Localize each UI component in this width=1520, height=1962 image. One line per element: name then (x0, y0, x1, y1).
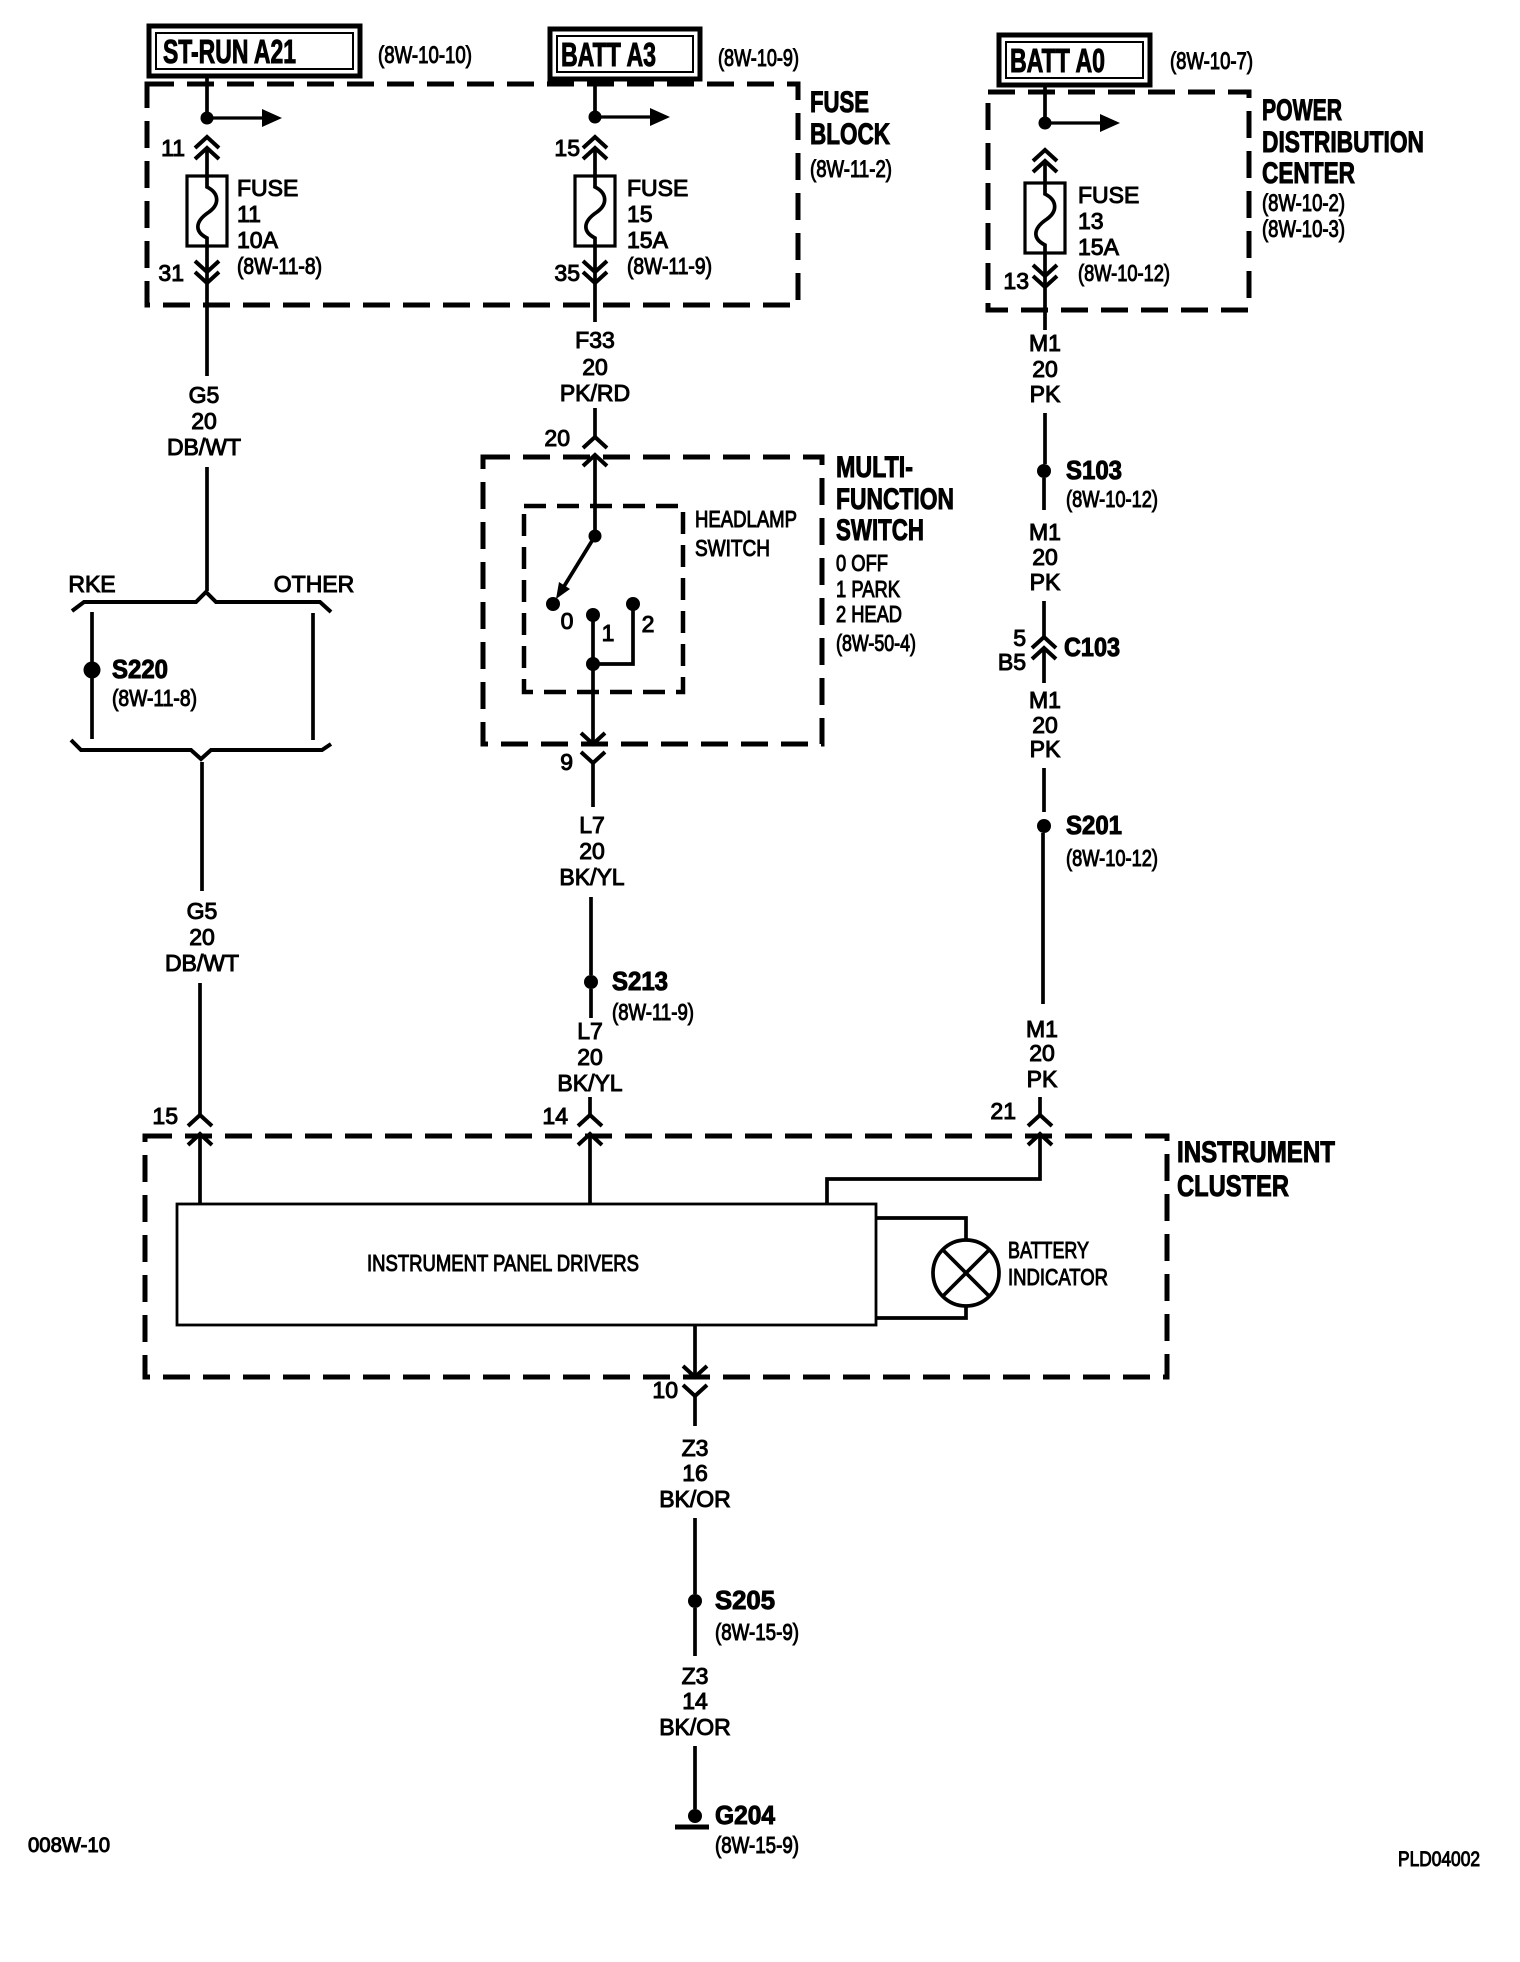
wire BATT A3 feed (593, 81, 597, 117)
svg-text:FUNCTION: FUNCTION (836, 483, 954, 516)
label wire Z3 14 BK/OR (659, 1663, 731, 1740)
label FUSE 13 15A (8W-10-12) (1078, 182, 1170, 286)
svg-text:15A: 15A (1078, 234, 1120, 260)
arrow feed branch middle (595, 115, 650, 118)
label wire Z3 16 BK/OR (659, 1435, 731, 1512)
label G204 (8W-15-9) (715, 1800, 799, 1858)
wire M1 to S103 (1043, 413, 1047, 464)
svg-text:9: 9 (560, 749, 573, 775)
svg-text:L7: L7 (577, 1018, 603, 1044)
svg-text:(8W-10-3): (8W-10-3) (1262, 216, 1345, 243)
svg-text:15: 15 (554, 135, 580, 161)
svg-text:SWITCH: SWITCH (836, 514, 924, 547)
svg-text:PK: PK (1030, 381, 1061, 407)
battery indicator lamp (933, 1240, 999, 1306)
svg-text:20: 20 (577, 1044, 603, 1070)
label POWER DISTRIBUTION CENTER (1262, 94, 1424, 243)
node splice S220 (84, 662, 101, 679)
wire into fuse 15 (593, 148, 597, 176)
svg-text:M1: M1 (1026, 1016, 1058, 1042)
label FUSE 11 10A (8W-11-8) (237, 175, 322, 279)
svg-text:(8W-10-12): (8W-10-12) (1066, 845, 1158, 871)
wire BATT A0 feed (1043, 87, 1047, 123)
svg-text:Z3: Z3 (682, 1663, 709, 1689)
svg-text:15A: 15A (627, 227, 669, 253)
switch blade (563, 536, 595, 588)
wire M1 top (1043, 287, 1047, 330)
svg-text:BK/YL: BK/YL (557, 1070, 622, 1096)
node splice junction right (1039, 117, 1052, 130)
wire into switch (593, 408, 597, 437)
svg-text:B5: B5 (998, 649, 1026, 675)
label S205 (8W-15-9) (715, 1585, 799, 1645)
wire ST-RUN A21 feed (205, 78, 209, 118)
svg-text:PLD04002: PLD04002 (1398, 1848, 1480, 1871)
label HEADLAMP SWITCH (695, 506, 797, 561)
svg-text:DB/WT: DB/WT (167, 434, 241, 460)
wire L7 upper (591, 763, 595, 807)
brace top (72, 592, 331, 612)
node splice S205 (688, 1594, 702, 1608)
svg-text:MULTI-: MULTI- (836, 451, 913, 484)
svg-text:FUSE: FUSE (810, 86, 869, 119)
arrow feed branch left (207, 116, 262, 119)
node switch output junction (586, 657, 600, 671)
svg-text:INDICATOR: INDICATOR (1008, 1264, 1108, 1290)
wire into fuse 11 (205, 148, 209, 176)
svg-text:BLOCK: BLOCK (810, 118, 890, 151)
connector cluster pin 10 (683, 1366, 707, 1377)
power distribution center enclosure (988, 92, 1249, 310)
svg-text:BATT A0: BATT A0 (1010, 42, 1105, 79)
svg-text:M1: M1 (1029, 519, 1061, 545)
svg-text:(8W-10-12): (8W-10-12) (1066, 486, 1158, 512)
svg-text:PK: PK (1030, 736, 1061, 762)
connector PDC top (1033, 150, 1057, 161)
svg-text:(8W-11-2): (8W-11-2) (810, 156, 892, 183)
svg-text:(8W-10-9): (8W-10-9) (718, 45, 799, 72)
label FUSE BLOCK (8W-11-2) (810, 86, 892, 183)
svg-text:L7: L7 (579, 812, 605, 838)
wire switch input (593, 455, 597, 536)
fuse F15 (575, 176, 615, 246)
svg-text:(8W-10-12): (8W-10-12) (1078, 260, 1170, 286)
svg-text:11: 11 (161, 135, 185, 161)
label S220 (8W-11-8) (112, 654, 197, 711)
svg-text:S201: S201 (1066, 810, 1122, 840)
wire Z3 upper (693, 1396, 697, 1426)
svg-text:20: 20 (1032, 544, 1058, 570)
svg-text:M1: M1 (1029, 687, 1061, 713)
label wire L7 20 BK/YL lower (557, 1018, 622, 1096)
label wire L7 20 BK/YL upper (559, 812, 624, 890)
svg-text:35: 35 (554, 260, 580, 286)
svg-text:(8W-50-4): (8W-50-4) (836, 630, 916, 656)
node splice S213 (584, 975, 598, 989)
svg-text:FUSE: FUSE (237, 175, 298, 201)
fuse F11 (187, 176, 227, 246)
wire G5 lower (200, 762, 204, 891)
wire Z3 to ground (693, 1746, 697, 1809)
wire contact 1 down (591, 620, 595, 664)
svg-text:S220: S220 (112, 654, 168, 684)
label FUSE 15 15A (8W-11-9) (627, 175, 712, 279)
svg-text:G5: G5 (189, 382, 220, 408)
svg-text:BK/OR: BK/OR (659, 1714, 731, 1740)
svg-text:HEADLAMP: HEADLAMP (695, 506, 797, 532)
svg-text:FUSE: FUSE (1078, 182, 1139, 208)
wire L7 into cluster (588, 1097, 592, 1115)
wire G5 middle (205, 467, 209, 591)
wire G5 into cluster (198, 983, 202, 1115)
wire L7 middle (589, 897, 593, 975)
wire Z3 below S205 (693, 1608, 697, 1656)
svg-text:16: 16 (682, 1460, 708, 1486)
svg-text:2: 2 (642, 611, 655, 637)
svg-text:20: 20 (189, 924, 215, 950)
label S201 (8W-10-12) (1066, 810, 1158, 871)
svg-text:PK/RD: PK/RD (560, 380, 630, 406)
label wire M1 20 PK second (1029, 519, 1061, 595)
svg-text:2 HEAD: 2 HEAD (836, 601, 902, 627)
svg-text:BATT A3: BATT A3 (561, 36, 656, 73)
connector pin 11 (195, 137, 219, 148)
power feed box BATT A3 (550, 29, 700, 79)
label S103 (8W-10-12) (1066, 455, 1158, 512)
svg-text:20: 20 (1032, 712, 1058, 738)
wire switch output (591, 669, 595, 744)
svg-text:CENTER: CENTER (1262, 157, 1355, 190)
svg-text:Z3: Z3 (682, 1435, 709, 1461)
svg-text:INSTRUMENT PANEL DRIVERS: INSTRUMENT PANEL DRIVERS (367, 1250, 639, 1276)
wire Z3 to S205 (693, 1518, 697, 1594)
svg-text:21: 21 (990, 1098, 1016, 1124)
svg-text:(8W-10-2): (8W-10-2) (1262, 190, 1345, 217)
svg-text:(8W-10-10): (8W-10-10) (378, 42, 472, 69)
svg-text:BATTERY: BATTERY (1008, 1237, 1089, 1263)
wire M1 to C103 (1042, 601, 1046, 637)
label wire M1 20 PK fourth (1026, 1016, 1058, 1092)
svg-text:POWER: POWER (1262, 94, 1342, 127)
svg-text:S213: S213 (612, 966, 668, 996)
connector switch pin 9 (581, 733, 605, 744)
svg-text:5: 5 (1013, 625, 1026, 651)
svg-text:20: 20 (582, 354, 608, 380)
wire M1 to S201 (1042, 768, 1046, 812)
svg-text:20: 20 (1029, 1040, 1055, 1066)
wire fuse 11 output (205, 246, 209, 283)
svg-text:20: 20 (544, 425, 570, 451)
svg-text:SWITCH: SWITCH (695, 535, 770, 561)
svg-text:0: 0 (561, 608, 574, 634)
connector cluster pin 14 (578, 1115, 602, 1126)
svg-text:(8W-15-9): (8W-15-9) (715, 1619, 799, 1645)
svg-text:DISTRIBUTION: DISTRIBUTION (1262, 126, 1424, 159)
connector pin 35 (583, 261, 607, 272)
svg-text:31: 31 (158, 260, 184, 286)
wire drivers output (693, 1325, 697, 1377)
wire G5 upper (205, 284, 209, 376)
svg-text:1 PARK: 1 PARK (836, 576, 901, 602)
node splice junction middle (589, 111, 602, 124)
svg-text:11: 11 (237, 201, 261, 227)
label wire G5 20 DB/WT lower (165, 898, 239, 976)
svg-text:RKE: RKE (68, 571, 115, 597)
connector switch pin 20 (583, 437, 607, 448)
svg-text:PK: PK (1030, 569, 1061, 595)
wire RKE branch (90, 612, 94, 739)
svg-text:ST-RUN A21: ST-RUN A21 (163, 33, 296, 70)
svg-text:14: 14 (682, 1688, 708, 1714)
instrument cluster enclosure (145, 1136, 1167, 1377)
svg-text:BK/OR: BK/OR (659, 1486, 731, 1512)
arrow feed branch right (1045, 121, 1100, 124)
svg-text:S205: S205 (715, 1585, 775, 1615)
svg-text:14: 14 (542, 1103, 568, 1129)
svg-text:(8W-15-9): (8W-15-9) (715, 1832, 799, 1858)
wire pin 14 to drivers (588, 1134, 592, 1204)
wire fuse 13 output (1043, 253, 1047, 287)
node splice S201 (1037, 819, 1051, 833)
svg-text:M1: M1 (1029, 330, 1061, 356)
contact 2 (626, 597, 640, 611)
svg-text:INSTRUMENT: INSTRUMENT (1177, 1136, 1335, 1169)
svg-text:10: 10 (652, 1377, 678, 1403)
label wire G5 20 DB/WT upper (167, 382, 241, 460)
svg-text:S103: S103 (1066, 455, 1122, 485)
fuse block enclosure (147, 84, 798, 305)
contact 1 (586, 608, 600, 622)
wire contact 2 down (597, 610, 633, 664)
svg-text:C103: C103 (1064, 632, 1120, 662)
node switch pivot (589, 530, 602, 543)
label S213 (8W-11-9) (612, 966, 694, 1025)
label INSTRUMENT CLUSTER (1177, 1136, 1335, 1203)
wire below S103 (1042, 478, 1046, 510)
svg-text:13: 13 (1078, 208, 1104, 234)
wire lamp to drivers bottom (876, 1306, 966, 1318)
svg-text:BK/YL: BK/YL (559, 864, 624, 890)
svg-text:PK: PK (1027, 1066, 1058, 1092)
svg-text:DB/WT: DB/WT (165, 950, 239, 976)
wire drivers to lamp top (876, 1218, 966, 1240)
svg-text:(8W-11-8): (8W-11-8) (112, 685, 197, 711)
multi-function switch enclosure (483, 457, 822, 744)
label wire F33 20 PK/RD (560, 327, 630, 406)
wire pin 21 to drivers (827, 1134, 1040, 1204)
svg-text:(8W-11-9): (8W-11-9) (627, 253, 712, 279)
wire into fuse 13 (1043, 161, 1047, 183)
svg-text:(8W-10-7): (8W-10-7) (1170, 48, 1253, 75)
wire L7 below S213 (589, 989, 593, 1018)
power feed box BATT A0 (999, 35, 1150, 85)
svg-text:15: 15 (152, 1103, 178, 1129)
instrument panel drivers box (177, 1204, 876, 1325)
connector cluster pin 15 (188, 1115, 212, 1126)
wire fuse 15 output (593, 246, 597, 283)
ground G204 (675, 1809, 709, 1827)
connector cluster pin 21 (1028, 1115, 1052, 1126)
wire below C103 (1042, 648, 1046, 683)
svg-text:OTHER: OTHER (274, 571, 355, 597)
svg-text:F33: F33 (575, 327, 615, 353)
wire pin 15 to drivers (198, 1134, 202, 1204)
svg-text:20: 20 (579, 838, 605, 864)
connector pin 13 (1033, 265, 1057, 276)
connector pin 15 (583, 137, 607, 148)
svg-text:008W-10: 008W-10 (28, 1834, 110, 1857)
svg-text:10A: 10A (237, 227, 279, 253)
wire M1 long (1041, 833, 1045, 1004)
wire F33 (593, 284, 597, 322)
svg-text:15: 15 (627, 201, 653, 227)
connector pin 31 (195, 261, 219, 272)
contact 0 (546, 597, 560, 611)
label wire M1 20 PK first (1029, 330, 1061, 407)
headlamp switch enclosure (524, 506, 683, 692)
svg-text:20: 20 (1032, 356, 1058, 382)
connector C103 (1032, 637, 1056, 648)
svg-text:13: 13 (1003, 268, 1029, 294)
svg-text:1: 1 (602, 620, 615, 646)
svg-text:(8W-11-8): (8W-11-8) (237, 253, 322, 279)
label MULTI-FUNCTION SWITCH (836, 451, 954, 656)
label wire M1 20 PK third (1029, 687, 1061, 762)
svg-text:0 OFF: 0 OFF (836, 550, 888, 576)
power feed box ST-RUN A21 (149, 26, 360, 76)
brace bottom (71, 740, 331, 759)
svg-text:G204: G204 (715, 1800, 776, 1830)
wire M1 into cluster (1038, 1097, 1042, 1115)
svg-text:G5: G5 (187, 898, 218, 924)
label BATTERY INDICATOR (1008, 1237, 1108, 1290)
node splice junction left (201, 112, 214, 125)
fuse F13 (1025, 183, 1065, 253)
svg-text:CLUSTER: CLUSTER (1177, 1170, 1289, 1203)
wire OTHER branch (311, 613, 315, 740)
svg-text:20: 20 (191, 408, 217, 434)
svg-text:FUSE: FUSE (627, 175, 688, 201)
node splice S103 (1037, 464, 1051, 478)
svg-text:(8W-11-9): (8W-11-9) (612, 999, 694, 1025)
